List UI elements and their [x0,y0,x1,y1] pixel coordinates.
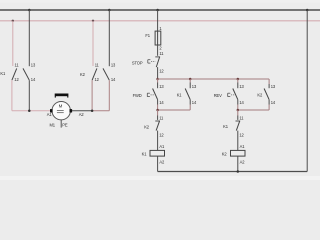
svg-text:A1: A1 [47,112,53,117]
label K1 coil [142,151,148,156]
wire right return riser [306,10,308,172]
label REV [214,93,222,98]
wire red drop to K2 aux [268,79,270,84]
svg-text:A1: A1 [240,144,246,149]
node junction dot on N at K2 pole1 feed [92,20,94,22]
node junction dot on N at K1 pole1 feed [12,20,14,22]
wire L1 top black rail [0,9,320,11]
svg-text:PE: PE [62,122,68,127]
label FWD [133,93,142,98]
svg-text:FWD: FWD [133,93,142,98]
contact K1 aux NO [185,79,197,110]
node junction dot at K1 aux branch [189,78,192,81]
label A1 [47,112,53,117]
label K2 main [80,72,86,77]
label K1 main [0,71,6,76]
wire red drop to K2 interlock [157,110,159,116]
contactor main contact K1 pole 13-14 [23,63,36,83]
label K1 aux [177,92,183,97]
label STOP [132,60,143,65]
svg-text:K2: K2 [80,72,86,77]
contactor main contact K1 pole 11-12 [12,63,20,83]
wire red branch bus [158,78,270,80]
label K2 interlock [144,124,150,129]
node junction dot FWD pair [156,109,159,112]
wire A2 motor black segment [72,110,92,112]
coil K1 [150,144,165,165]
wire black drop to K2 pole2 [108,10,110,66]
svg-text:K2: K2 [222,151,228,156]
actuator REV button [228,93,235,96]
label A2 [79,112,85,117]
label K2 coil [222,151,228,156]
terminal bar above motor [55,94,69,98]
label PE [62,122,68,127]
node junction dot bottom rail [237,170,240,173]
contact K2 interlock NC [155,116,164,151]
svg-text:K1: K1 [142,151,148,156]
fuse F1 [145,26,162,51]
node junction dot A2 wire [91,109,94,112]
node junction dot REV pair [237,109,240,112]
motor M1 [50,102,72,120]
label K2 aux [257,92,263,97]
wire K2 coil to bottom rail [237,156,239,171]
svg-text:K2: K2 [144,124,150,129]
wire A2 red segment [92,110,109,112]
wire fuse feed from L1 [157,10,159,31]
contactor main contact K2 pole 11-12 [92,63,100,83]
wire fuse to stop [157,45,159,56]
wire red K2 pole2 bottom [108,80,110,111]
wire black drop to K1 pole2 [28,10,30,66]
label M1 [50,123,56,128]
svg-text:A2: A2 [159,160,165,165]
wire PE stub [60,120,62,128]
svg-text:K1: K1 [223,124,229,129]
node junction dot at REV branch [237,78,240,81]
contact K1 interlock NC [236,116,245,151]
wire N pink rail [0,20,320,22]
node junction dot on L1 at K2 pole2 feed [108,9,111,12]
wire red REV pair bottom [238,109,269,111]
pushbutton STOP NC [155,51,164,79]
svg-text:K2: K2 [257,92,263,97]
svg-text:M1: M1 [50,123,56,128]
contactor main contact K2 pole 13-14 [103,63,116,83]
pushbutton FWD NO [153,79,165,110]
actuator FWD button [147,93,154,96]
node junction dot A1 wire [28,109,31,112]
contact K2 aux NO [264,84,276,110]
node junction dot below STOP [156,78,159,81]
wire red K2 pole1 bottom [91,80,93,111]
svg-text:A2: A2 [79,112,85,117]
wire red FWD pair bottom [158,109,191,111]
wire K1 coil to bottom rail [157,156,159,171]
svg-text:STOP: STOP [132,60,143,65]
wire bottom return rail [158,171,308,173]
wire pink drop to K2 pole1 [92,21,94,66]
node junction dot on L1 at K1 pole2 feed [28,9,31,12]
wire pink drop to K1 pole1 [12,21,14,66]
label K1 interlock [223,124,229,129]
wire red drop to K1 interlock [237,110,239,116]
svg-text:K1: K1 [0,71,6,76]
svg-text:A2: A2 [240,160,246,165]
node junction dot on L1 at fuse F1 feed [156,9,159,12]
wire A1 motor feed pink [12,110,50,112]
actuator STOP button [148,60,156,63]
svg-text:M: M [59,104,63,109]
svg-text:K1: K1 [177,92,183,97]
wire pink K1 pole1 bottom [11,80,13,111]
svg-text:REV: REV [214,93,222,98]
coil K2 [231,144,246,165]
svg-text:A1: A1 [159,144,165,149]
node junction dot on L1 at right return [306,9,309,12]
pushbutton REV NO [233,79,245,110]
wire black K1 pole2 bottom [28,80,30,111]
